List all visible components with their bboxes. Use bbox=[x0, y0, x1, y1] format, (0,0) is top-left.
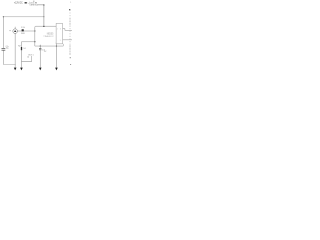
svg-text:1k5: 1k5 bbox=[23, 48, 26, 50]
dash start dot bbox=[69, 9, 70, 10]
dashed boundary right bbox=[69, 10, 71, 55]
svg-text:10µ: 10µ bbox=[6, 48, 9, 50]
svg-text:50V: 50V bbox=[44, 51, 47, 53]
wire pin right lower y39.85 bbox=[63, 39, 72, 41]
wire riser to OUT label bbox=[31, 56, 33, 62]
wire trigger vertical x34.85 bbox=[35, 26, 56, 46]
capacitor C1 plates bbox=[2, 47, 6, 50]
ground arrow 3 bbox=[39, 68, 42, 71]
corner dot supply bbox=[43, 4, 44, 5]
transistor Q1 circle bbox=[13, 29, 18, 34]
ground arrow 4 bbox=[55, 68, 58, 71]
node junction T at x43.9 y16.8 bbox=[43, 16, 44, 17]
transistor Q1 inner mark bbox=[14, 30, 16, 32]
svg-text:TIMER IC: TIMER IC bbox=[43, 36, 55, 38]
wire below C2 to ground bbox=[39, 50, 41, 68]
wire R2 branch horizontal y41.7 bbox=[21, 41, 34, 43]
wire left rail vertical upper bbox=[2, 17, 4, 48]
wire Q1 top stub bbox=[14, 27, 16, 29]
svg-text:UNREGUL: UNREGUL bbox=[30, 5, 38, 7]
wire bottom bus bbox=[3, 64, 15, 66]
wire C2 vertical bbox=[39, 45, 41, 49]
wire +12V feed horizontal bbox=[37, 4, 44, 6]
node junction dot x40.25 bbox=[40, 45, 41, 46]
wire riser box corner bbox=[62, 44, 64, 46]
wire pin3 stub jog bbox=[63, 29, 72, 31]
svg-text:1: 1 bbox=[60, 40, 61, 42]
resistor R2 body bbox=[21, 47, 22, 50]
node junction bottom bus bbox=[14, 63, 17, 66]
battery plug icon in header bbox=[25, 2, 26, 3]
node junction dot x56.45 bbox=[56, 45, 57, 46]
wire +12V feed vertical bbox=[43, 5, 45, 27]
node junction dot on pin2 wire bbox=[43, 26, 44, 27]
diode D1 on base wire bbox=[22, 29, 24, 31]
wire bottom net y46 bbox=[35, 45, 63, 47]
svg-text:2: 2 bbox=[57, 28, 58, 30]
node junction dot x34.85 y41.7 bbox=[34, 41, 35, 42]
svg-text:R2: R2 bbox=[18, 46, 21, 48]
wire top bus y17 bbox=[3, 16, 44, 18]
capacitor C2 plates bbox=[39, 47, 41, 50]
svg-text:OUT 1: OUT 1 bbox=[28, 55, 34, 57]
dashed boundary darker mid segment bbox=[69, 18, 71, 26]
node junction dot x34.85 y31 bbox=[34, 30, 35, 31]
node corner dot left rail bbox=[3, 16, 4, 17]
svg-text:R1 10k: R1 10k bbox=[21, 27, 25, 29]
wire ground pin vertical x56.45 bbox=[55, 44, 57, 68]
wire stub y61.5 bbox=[21, 61, 31, 63]
svg-text:NE555: NE555 bbox=[47, 32, 54, 36]
dash end mark bbox=[70, 63, 71, 66]
ground arrow 1 bbox=[14, 68, 17, 71]
ground arrow 2 bbox=[20, 68, 23, 71]
svg-text:1N4148: 1N4148 bbox=[21, 33, 25, 35]
svg-text:50: 50 bbox=[33, 1, 35, 3]
wire left rail vertical lower bbox=[2, 51, 4, 65]
wire R2 branch vertical x21.45 bbox=[20, 42, 22, 68]
dash mark mid bbox=[70, 56, 71, 59]
wire base y31 bbox=[17, 30, 34, 32]
op-amp U1 555 box bbox=[56, 23, 63, 43]
wire Q1 bottom to ground bbox=[14, 33, 16, 68]
svg-text:+12V DC: +12V DC bbox=[14, 3, 23, 5]
emitter tick left of Q1 bbox=[10, 30, 11, 32]
